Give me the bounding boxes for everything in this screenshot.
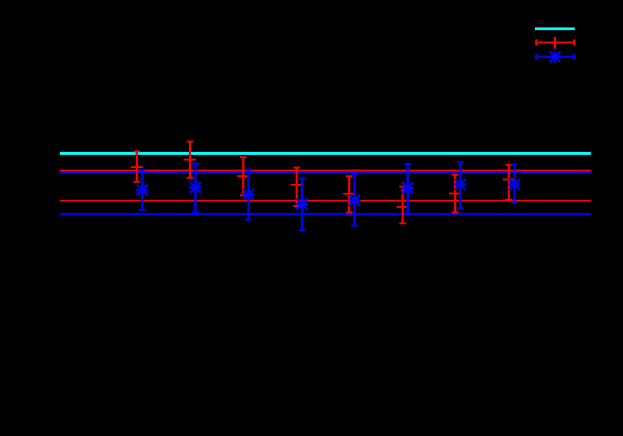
legend red errorbar sample	[535, 37, 575, 49]
red errorbar point 2	[184, 141, 196, 179]
red errorbar point 6	[397, 186, 409, 225]
blue errorbar point 2 with star marker	[189, 163, 201, 214]
red errorbar point 1	[131, 151, 143, 183]
blue errorbar point 5 with star marker	[349, 173, 361, 226]
legend cyan line sample	[535, 27, 575, 30]
red errorbar point 4	[291, 167, 303, 207]
red errorbar point 8	[503, 164, 515, 200]
red errorbar point 5	[343, 175, 355, 213]
red errorbar point 3	[237, 156, 249, 196]
red reference line lower	[60, 200, 591, 202]
cyan theory line	[60, 152, 591, 155]
blue errorbar point 1 with star marker	[136, 169, 148, 211]
blue errorbar point 7 with star marker	[454, 161, 466, 209]
blue errorbar point 3 with star marker	[243, 169, 255, 221]
blue errorbar point 6 with star marker	[402, 163, 414, 215]
blue reference line lower	[60, 213, 591, 215]
red reference line upper	[60, 170, 591, 172]
blue errorbar point 4 with star marker	[296, 178, 308, 231]
red errorbar point 7	[449, 174, 461, 213]
legend blue errorbar sample with star	[535, 51, 575, 63]
blue reference line upper	[60, 171, 591, 173]
blue errorbar point 8 with star marker	[508, 163, 520, 204]
